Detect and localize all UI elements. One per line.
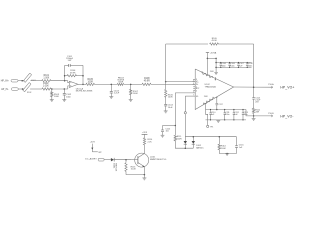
wire [174,93,176,126]
wire [166,43,208,45]
wire [215,58,217,72]
U102 internal feedback tap [214,77,216,80]
capacitor C105 [220,63,222,64]
diode D102-A [184,137,186,141]
rail ground (lower) [206,119,247,121]
wire [64,65,66,80]
svg-text:220R: 220R [177,138,182,140]
svg-text:50V: 50V [68,60,72,62]
connector pad J1-A [11,80,18,83]
wire shutdown pin [185,95,195,97]
wire [68,81,70,83]
ground [216,120,220,122]
node junction [185,147,187,149]
svg-text:100K: 100K [168,97,174,99]
svg-text:+3V3A: +3V3A [210,51,217,54]
svg-text:+3V3: +3V3 [142,132,148,134]
capacitor C115 [163,125,176,127]
capacitor C112 [233,110,235,113]
svg-text:1uF: 1uF [211,114,215,116]
wire [82,65,84,84]
node junction [193,136,195,138]
wire V+ pin [206,58,208,74]
wire [18,80,25,82]
svg-text:600R: 600R [118,82,123,84]
svg-text:20R: 20R [255,112,259,114]
node junction [51,88,53,90]
wire [143,167,145,178]
resistor R109 [210,43,219,45]
node junction [165,81,167,83]
wire [104,159,111,161]
svg-text:F102: F102 [27,92,31,94]
wire [165,44,167,89]
capacitor C108 [246,63,248,64]
wire [219,153,236,155]
U102 internal resistor (top edge) [201,71,214,78]
node junction [175,125,177,127]
wire [206,53,208,59]
wire [144,145,146,153]
wire [51,88,68,90]
node junction [226,153,228,155]
U102 pin IN+ [193,81,196,83]
transistor Q101 [135,153,149,167]
svg-text:100n: 100n [222,66,226,68]
svg-text:3: 3 [193,80,194,82]
capacitor C113 [242,110,244,113]
wire [184,96,186,112]
svg-text:MMBT3904LT1G: MMBT3904LT1G [150,159,167,161]
wire [78,83,86,85]
ground [252,118,256,120]
svg-text:HP_VO+: HP_VO+ [280,86,294,90]
svg-text:100n: 100n [230,66,234,68]
resistor R110 [143,138,145,145]
ground [109,96,113,98]
wire [126,174,144,176]
node junction [130,84,132,86]
svg-text:HP_VO-: HP_VO- [280,114,293,118]
rail VO- [206,109,247,111]
node junction [253,115,255,117]
svg-text:C117: C117 [219,104,223,106]
svg-text:P10-A: P10-A [268,83,274,86]
wire [207,57,216,59]
ground [164,110,168,112]
power flag +3V3A [206,52,209,54]
capacitor C111 [224,110,226,113]
svg-text:P10-B: P10-B [268,113,274,115]
fuse F101 (diagonal) [23,73,31,82]
resistor R108 [142,83,151,85]
node junction [125,159,127,161]
wire [95,83,118,85]
U102 output tap [216,97,217,98]
wire VO+ [234,86,273,88]
node junction [64,75,66,77]
resistor R102 [42,88,51,90]
op-amp U101A [69,81,78,87]
svg-text:2.2uF: 2.2uF [114,93,120,95]
wire [184,114,186,137]
resistor R114 [218,137,220,145]
resistor R105 [86,83,95,85]
svg-text:100n: 100n [225,114,229,116]
svg-text:100K: 100K [133,93,139,95]
svg-text:TP1: TP1 [210,126,214,128]
wire [185,136,236,138]
wire [165,97,167,104]
node junction [64,80,66,82]
svg-text:49.9R: 49.9R [144,81,150,83]
wire [151,83,195,85]
svg-text:HP_IN+: HP_IN+ [1,81,10,83]
svg-text:BAT54C: BAT54C [196,146,204,149]
wire [253,44,255,87]
U102 internal resistor (bottom edge) [203,97,215,105]
svg-text:6: 6 [196,90,197,92]
wire [124,83,142,85]
capacitor C101 [65,64,69,66]
ground [142,177,146,179]
net port arrow [91,144,93,152]
svg-text:100K: 100K [221,148,226,150]
resistor R103 [51,89,53,92]
svg-text:1uF: 1uF [234,114,238,116]
ground [50,99,54,101]
svg-text:4: 4 [193,83,194,85]
svg-text:TPA6205A1: TPA6205A1 [205,86,217,89]
U102 pin stubs [193,78,195,80]
wire [68,86,70,89]
capacitor C110 [210,110,212,113]
resistor R113 [125,160,127,163]
node junction [215,62,217,64]
capacitor C103 [110,84,112,91]
resistor R104 [65,75,67,77]
fuse F102 (diagonal) [23,83,31,92]
node junction [215,58,217,60]
svg-text:10.0K: 10.0K [131,169,137,171]
net flag [98,158,104,161]
svg-text:RB751S: RB751S [115,163,117,172]
svg-text:49.9K: 49.9K [70,72,76,74]
node junction [207,58,209,60]
svg-text:150K: 150K [210,71,215,73]
wire from R106 node to pin 5 [175,92,195,94]
svg-text:100R: 100R [88,81,94,83]
amplifier U102 body [195,69,233,110]
wire [92,151,98,153]
wire [18,88,24,90]
ground [214,71,218,73]
connector pad J1-B [11,88,18,91]
ground [129,99,133,101]
U102 pin IN- [193,83,196,85]
svg-text:150K: 150K [204,96,209,98]
svg-text:IN+: IN+ [196,81,199,83]
resistor R106 [165,90,167,98]
wire [51,80,68,82]
svg-text:2.2K: 2.2K [148,141,153,143]
capacitor C114 [253,87,255,97]
capacitor C104 [164,103,167,105]
wire to amp +IN [166,81,195,83]
svg-text:10uF: 10uF [168,107,174,109]
wire [30,88,42,90]
svg-text:1.00K: 1.00K [43,86,49,88]
svg-text:HP_IN-: HP_IN- [1,89,9,91]
svg-text:1.00K: 1.00K [43,77,49,79]
ferrite bead FB103 [117,83,123,85]
wire NC stub with test point [206,103,208,125]
capacitor C116 [236,137,238,146]
svg-text:D101: D101 [112,163,114,169]
connector pin (open circle) [207,125,209,127]
wire VO- to output [246,110,272,116]
node junction [253,86,255,88]
capacitor C117 (Vo- coupling) [216,97,218,103]
svg-text:1uF: 1uF [239,147,243,149]
svg-text:49.9K: 49.9K [212,40,218,42]
node junction [219,136,221,138]
svg-text:100K: 100K [54,96,60,98]
ground [161,134,165,136]
svg-text:SD: SD [196,96,199,98]
diode D102-B [192,137,194,141]
node junction [64,88,66,90]
bypass rail top [216,62,251,64]
node junction [21,80,23,82]
resistor R107 [130,84,132,89]
svg-text:MCP6L92T-E/MS: MCP6L92T-E/MS [76,91,93,93]
bypass rail bottom [216,66,251,68]
capacitor C106 [229,63,231,64]
wire [218,43,254,45]
node junction [216,109,218,111]
wire [30,80,41,82]
node junction [111,84,113,86]
wire [253,116,255,119]
svg-text:100n: 100n [248,66,252,68]
ground [225,153,229,155]
node junction [144,174,146,176]
ground [62,99,66,101]
svg-text:INT: INT [98,152,102,154]
diode D101 [111,158,114,161]
resistor R101 [42,80,51,82]
capacitor C102 [63,89,65,94]
node junction [82,75,84,77]
svg-text:DC_ALERT: DC_ALERT [85,158,97,161]
svg-text:100n: 100n [66,96,72,98]
svg-text:10n: 10n [166,131,169,133]
capacitor C107 [237,63,239,64]
connector pin (open circle) [184,112,186,114]
svg-text:8: 8 [196,79,197,81]
svg-text:25V: 25V [255,102,259,104]
wire [175,141,193,148]
resistor R111 [174,126,176,136]
resistor R112 [253,99,255,108]
svg-text:+3V3: +3V3 [90,141,96,143]
node junction [22,88,24,90]
node junction [215,67,217,69]
node junction [82,84,84,86]
